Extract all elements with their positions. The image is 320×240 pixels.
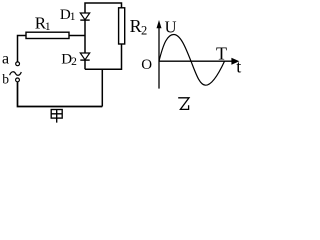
svg-text:a: a bbox=[2, 51, 9, 68]
svg-text:U: U bbox=[165, 17, 177, 36]
svg-text:t: t bbox=[236, 56, 241, 76]
svg-text:b: b bbox=[2, 72, 9, 87]
t axis arrowhead bbox=[231, 58, 239, 65]
wire D2 to loop bottom bbox=[84, 60, 86, 69]
terminal b circle bbox=[16, 78, 20, 82]
svg-text:O: O bbox=[141, 57, 152, 73]
svg-text:D2: D2 bbox=[61, 52, 77, 68]
U axis (vertical) bbox=[158, 26, 160, 89]
diode D2 bbox=[80, 53, 89, 60]
caption yi (second) glyph bbox=[178, 98, 189, 110]
wire R1 to diode branch bbox=[69, 35, 85, 37]
wire D1 to D2 bbox=[84, 20, 86, 53]
wire loop bottom bbox=[85, 44, 122, 69]
wire bottom rail bbox=[18, 82, 103, 107]
svg-text:D1: D1 bbox=[60, 7, 76, 23]
diode D1 bbox=[80, 13, 89, 20]
AC source tilde bbox=[10, 72, 22, 75]
svg-text:R2: R2 bbox=[130, 16, 148, 38]
sine curve bbox=[159, 35, 225, 86]
caption jia (first) glyph bbox=[51, 110, 62, 123]
wire top rail from D1 to R2 bbox=[85, 3, 122, 13]
wire stub down from loop bottom bbox=[101, 69, 103, 106]
t axis (horizontal) bbox=[159, 60, 232, 62]
resistor R1 bbox=[26, 32, 69, 38]
resistor R2 bbox=[119, 8, 125, 44]
svg-text:R1: R1 bbox=[35, 14, 51, 33]
wire from terminal a up and right to R1 bbox=[18, 36, 27, 62]
U axis arrowhead bbox=[157, 20, 162, 28]
terminal a circle bbox=[16, 62, 20, 66]
svg-text:T: T bbox=[216, 43, 227, 63]
